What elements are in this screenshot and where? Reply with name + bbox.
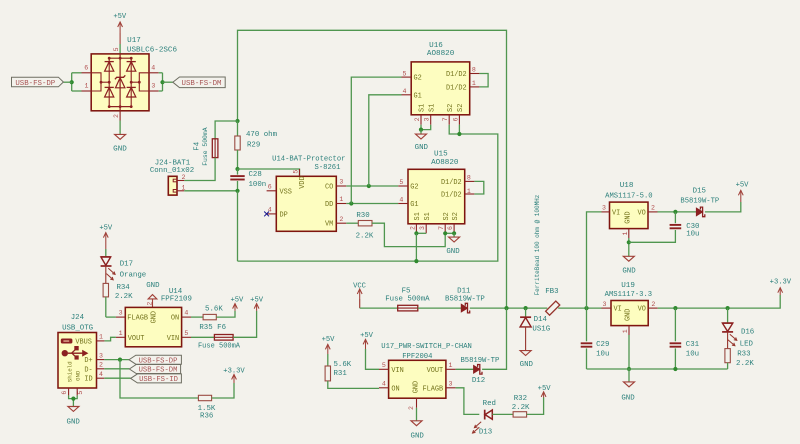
- svg-text:G2: G2: [414, 75, 422, 83]
- svg-text:USBLC6-2SC6: USBLC6-2SC6: [127, 46, 178, 54]
- svg-text:Red: Red: [483, 400, 496, 408]
- power +5V (D17): [99, 224, 113, 249]
- D12 reference: [472, 377, 485, 385]
- wire R30 to U15 S2: [372, 223, 445, 246]
- pin 3 number U18: [602, 205, 606, 212]
- D15 reference: [693, 187, 706, 195]
- svg-text:GND: GND: [75, 370, 82, 381]
- fuse F5: [398, 305, 418, 311]
- svg-text:3: 3: [339, 179, 343, 186]
- svg-text:VSS: VSS: [280, 188, 292, 196]
- svg-text:8: 8: [467, 175, 471, 182]
- svg-text:R34: R34: [116, 284, 130, 292]
- wire VSS node down to S1 rail: [237, 191, 239, 261]
- F4 reference: [193, 141, 201, 150]
- global label USB-FS-DP (usb): [129, 355, 181, 365]
- pin 6 number J24: [61, 391, 68, 395]
- wire U15 S1 bracket: [416, 232, 426, 234]
- svg-text:VM: VM: [325, 221, 333, 229]
- svg-text:VOUT: VOUT: [427, 367, 444, 375]
- svg-text:GND: GND: [446, 248, 460, 256]
- pin 2 number U17: [113, 114, 120, 118]
- J24-BAT1 reference: [155, 159, 191, 167]
- wire D12 to VCC node: [482, 308, 506, 369]
- R30 value 2.2K: [356, 232, 374, 240]
- C28 reference: [249, 171, 262, 179]
- pin 4 number U14: [268, 207, 272, 214]
- pin 7 number U15: [438, 226, 445, 230]
- svg-text:FB3: FB3: [545, 288, 558, 296]
- svg-text:GND: GND: [621, 395, 635, 403]
- wire U17 right bracket: [159, 73, 163, 91]
- FPF2109 pin name VOUT: [128, 335, 145, 343]
- svg-text:D1/D2: D1/D2: [441, 179, 462, 187]
- svg-text:10u: 10u: [596, 351, 609, 359]
- svg-text:3: 3: [449, 380, 453, 387]
- svg-text:VO: VO: [638, 209, 646, 217]
- resistor R32: [513, 412, 527, 417]
- svg-text:U17: U17: [127, 37, 141, 45]
- svg-text:1: 1: [472, 80, 476, 87]
- svg-text:CO: CO: [325, 184, 333, 192]
- svg-text:D-: D-: [84, 366, 92, 374]
- svg-text:S-8261: S-8261: [315, 164, 341, 172]
- FPF2109 pin name FLAGB: [127, 315, 148, 323]
- junction U18 GND: [627, 240, 631, 244]
- svg-text:100n: 100n: [249, 181, 267, 189]
- ground U18: [622, 256, 636, 275]
- svg-text:5.6K: 5.6K: [334, 361, 352, 369]
- svg-text:GND: GND: [411, 433, 425, 439]
- svg-text:GND: GND: [520, 361, 534, 369]
- power +5V (R32): [538, 385, 552, 397]
- U17sw pin name GND: [413, 381, 421, 393]
- svg-text:2.2K: 2.2K: [512, 404, 530, 412]
- resistor R33: [725, 349, 730, 369]
- pin 3 number U17: [151, 83, 155, 90]
- svg-text:VO: VO: [638, 306, 646, 314]
- junction S1 rail: [414, 259, 418, 263]
- pin 1 number J24: [99, 334, 103, 341]
- svg-text:1: 1: [339, 196, 343, 203]
- svg-text:S2: S2: [457, 104, 465, 112]
- wire U17 to label USB-FS-DM: [163, 81, 173, 83]
- U17sw pin name FLAGB: [423, 385, 444, 393]
- wire U16 G1 vertical: [369, 95, 402, 186]
- svg-text:R35: R35: [199, 324, 212, 332]
- svg-text:3: 3: [603, 301, 607, 308]
- J24 pin name D-: [84, 366, 92, 374]
- U14 FPF2109 reference: [169, 288, 183, 296]
- svg-text:4: 4: [382, 380, 386, 387]
- wire R35 to +5V: [216, 311, 235, 317]
- svg-text:Fuse 500mA: Fuse 500mA: [198, 343, 241, 351]
- U16 pin name G2: [414, 75, 422, 83]
- U17sw pin name ON: [391, 385, 399, 393]
- U17sw pin name VIN: [391, 367, 403, 375]
- junction CO / U16 G1: [367, 184, 371, 188]
- svg-text:FPF2004: FPF2004: [402, 353, 432, 361]
- U19 pin name GND: [625, 309, 633, 321]
- svg-text:5.6K: 5.6K: [205, 305, 223, 313]
- svg-text:GND: GND: [415, 144, 429, 152]
- svg-text:+5V: +5V: [99, 224, 113, 232]
- pin 8 number U16: [472, 67, 476, 74]
- svg-text:VI: VI: [612, 209, 620, 217]
- wire F6 to +5V: [233, 311, 257, 338]
- U19 reference: [621, 282, 635, 290]
- U15 pin name S2 b: [452, 212, 460, 220]
- J24 USB value USB_OTG: [62, 325, 93, 333]
- U17_PWR-SWITCH_P-CHAN reference: [381, 343, 472, 351]
- junction D+ / R36: [118, 358, 122, 362]
- svg-text:ON: ON: [391, 385, 399, 393]
- svg-text:5: 5: [399, 179, 403, 186]
- power +5V (R35): [230, 297, 244, 311]
- svg-text:1: 1: [85, 83, 89, 90]
- pin 2 number U18: [651, 205, 655, 212]
- power +5V (U17 VIN): [360, 332, 374, 349]
- pin 2 number U19: [651, 301, 655, 308]
- svg-text:10u: 10u: [686, 351, 699, 359]
- J24 pin name D+: [84, 357, 92, 365]
- FPF2109 pin name ON: [171, 315, 179, 323]
- pin 3 number U17sw: [449, 380, 453, 387]
- svg-text:Shield: Shield: [67, 361, 74, 382]
- wire ON to R35: [191, 316, 203, 318]
- U14 pin name DD: [325, 201, 333, 209]
- wire D- to label: [104, 368, 129, 370]
- svg-text:D1/D2: D1/D2: [441, 192, 462, 200]
- wire J24-BAT1 pin1 to VSS node: [184, 190, 237, 192]
- resistor R34: [103, 283, 108, 317]
- svg-text:6: 6: [452, 117, 459, 121]
- pin 5 number U17: [113, 47, 120, 51]
- svg-text:6: 6: [447, 226, 454, 230]
- svg-text:FLAGB: FLAGB: [423, 385, 444, 393]
- pin 4 number FPF2109: [184, 310, 188, 317]
- svg-text:USB_OTG: USB_OTG: [62, 325, 93, 333]
- svg-text:2: 2: [113, 114, 120, 118]
- U16 pin name S2 b: [457, 104, 465, 112]
- svg-text:FPF2109: FPF2109: [161, 296, 192, 304]
- svg-text:+5V: +5V: [230, 297, 244, 305]
- svg-text:+5V: +5V: [538, 385, 552, 393]
- svg-text:ID: ID: [84, 376, 92, 384]
- svg-text:2: 2: [182, 174, 186, 181]
- C28 value 100n: [249, 181, 267, 189]
- resistor R31: [325, 354, 379, 388]
- svg-text:D15: D15: [693, 187, 706, 195]
- FPF2004 value: [402, 353, 432, 361]
- wire FLAGB to D13: [456, 388, 480, 415]
- svg-text:4: 4: [184, 310, 188, 317]
- junction U15 S2 pin6: [452, 231, 456, 235]
- pin 1 number U17: [85, 83, 89, 90]
- U15 pin name S1 a: [414, 212, 422, 220]
- R33 reference: [737, 351, 750, 359]
- R32 value 2.2K: [512, 404, 530, 412]
- junction C30 top: [673, 210, 677, 214]
- R34 value 2.2K: [115, 293, 133, 301]
- svg-text:R30: R30: [356, 212, 369, 220]
- svg-text:2.2K: 2.2K: [115, 293, 133, 301]
- pin 2 number J24-BAT1: [182, 174, 186, 181]
- U18 pin name VO: [638, 209, 646, 217]
- wire +5V to VIN: [366, 349, 380, 369]
- svg-text:10u: 10u: [686, 231, 699, 239]
- wire U16 S1 bracket: [421, 125, 431, 130]
- ferrite bead FB3: [546, 301, 560, 315]
- resistor R35: [203, 314, 216, 319]
- capacitor C31: [670, 308, 682, 369]
- R35 reference: [199, 324, 212, 332]
- pin 5 number U14: [292, 170, 299, 174]
- power +3.3V (right): [770, 279, 792, 295]
- svg-text:2: 2: [408, 406, 415, 410]
- svg-text:R33: R33: [737, 351, 750, 359]
- svg-text:470 ohm: 470 ohm: [246, 131, 278, 139]
- svg-text:S2: S2: [452, 212, 460, 220]
- svg-text:VDD: VDD: [299, 176, 307, 188]
- global label USB-FS-DM (right): [173, 77, 225, 88]
- J24-BAT1 value Conn_01x02: [150, 167, 194, 175]
- wire U14 DD to U15 G1: [346, 203, 398, 205]
- svg-text:2: 2: [99, 362, 103, 369]
- pin 7 number U16: [442, 117, 449, 121]
- wire U14 CO to U15 G2: [346, 185, 398, 187]
- capacitor C30: [629, 212, 681, 242]
- junction VDD node: [235, 167, 239, 171]
- power +5V (F6): [250, 297, 264, 311]
- wire R34 to FLAGB: [106, 316, 116, 318]
- J24 pin name ID: [84, 376, 92, 384]
- pin 2 number J24: [99, 362, 103, 369]
- ground J24: [67, 407, 81, 427]
- junction U15 S2 pin7: [443, 231, 447, 235]
- svg-text:3: 3: [424, 117, 431, 121]
- svg-text:6: 6: [268, 183, 272, 190]
- op-amp U17 USBLC6-2SC6 TVS array: [82, 54, 159, 121]
- junction D16 top: [726, 306, 730, 310]
- ground U17sw: [411, 408, 425, 441]
- svg-text:R29: R29: [247, 142, 260, 150]
- wire U16 G2 vertical: [351, 77, 401, 203]
- R30 reference: [356, 212, 369, 220]
- pin 1 number U17sw: [449, 362, 453, 369]
- wire bottom S1 rail: [238, 134, 498, 261]
- pin 3 number U15: [419, 226, 426, 230]
- U19 pin name VO: [638, 306, 646, 314]
- wire +5V to U17 pin 5: [119, 44, 121, 53]
- svg-text:AMS1117-5.0: AMS1117-5.0: [605, 193, 652, 201]
- svg-text:D14: D14: [534, 316, 548, 324]
- U16 reference: [429, 42, 443, 50]
- svg-text:DP: DP: [280, 211, 288, 219]
- svg-text:G2: G2: [410, 184, 418, 192]
- junction VSS node: [235, 189, 239, 193]
- svg-text:+5V: +5V: [113, 13, 127, 21]
- wire D15 to +5V: [705, 202, 741, 212]
- global label USB-FS-ID (usb): [131, 374, 182, 384]
- svg-text:D11: D11: [457, 288, 471, 296]
- junction C31 top: [673, 306, 677, 310]
- svg-text:D+: D+: [84, 357, 92, 365]
- D17 value Orange: [120, 271, 147, 279]
- svg-text:GND: GND: [113, 145, 127, 153]
- F4 value Fuse 500mA: [202, 127, 209, 166]
- global label USB-FS-DM (usb): [129, 365, 180, 375]
- pin 3 number J24: [99, 352, 103, 359]
- svg-text:AO8820: AO8820: [431, 159, 459, 167]
- pin 2 number U14: [339, 216, 343, 223]
- ground above FPF2109 (inverted): [146, 282, 160, 307]
- svg-text:+5V: +5V: [322, 336, 336, 344]
- junction battery plus node: [235, 119, 239, 123]
- svg-text:U17_PWR-SWITCH_P-CHAN: U17_PWR-SWITCH_P-CHAN: [381, 343, 472, 351]
- C29 reference: [596, 341, 609, 349]
- R29 value 470 ohm: [246, 131, 278, 139]
- global label USB-FS-DP (left): [12, 77, 64, 88]
- svg-text:B5819W-TP: B5819W-TP: [445, 296, 485, 304]
- svg-text:4: 4: [151, 64, 155, 71]
- D14 reference: [534, 316, 548, 324]
- D13 value Red: [483, 400, 496, 408]
- wire U18 VI vertical: [587, 212, 602, 308]
- svg-text:VOUT: VOUT: [128, 335, 145, 343]
- pin 4 number J24: [99, 371, 103, 378]
- J24 pin name VBUS: [75, 339, 92, 347]
- capacitor C29: [581, 308, 593, 369]
- U16 value AO8820: [427, 50, 455, 58]
- svg-text:DD: DD: [325, 201, 333, 209]
- U16 pin name D1/D2 lower: [446, 84, 467, 92]
- svg-text:D16: D16: [741, 329, 754, 337]
- svg-text:+3.3V: +3.3V: [770, 279, 792, 287]
- F6 value Fuse 500mA: [198, 343, 241, 351]
- U18 pin name GND: [624, 211, 632, 223]
- U15 pin name G1: [410, 201, 418, 209]
- wire U18 GND: [628, 238, 630, 256]
- pin 6 number U17: [84, 64, 88, 71]
- junction left of U17: [70, 80, 74, 84]
- pin 2 number U16: [414, 117, 421, 121]
- svg-text:2.2K: 2.2K: [356, 232, 374, 240]
- wire U15 S1 to rail: [415, 233, 417, 261]
- wire ID to label: [104, 377, 130, 379]
- svg-text:C31: C31: [686, 341, 700, 349]
- svg-text:1: 1: [622, 231, 629, 235]
- pin 1 number U18: [622, 231, 629, 235]
- svg-text:8: 8: [472, 67, 476, 74]
- power +5V (D15): [736, 182, 750, 202]
- FPF2109 pin name GND: [151, 311, 159, 323]
- U16 pin name S1 b: [429, 104, 437, 112]
- svg-text:GND: GND: [624, 211, 632, 223]
- pin 6 number U16: [452, 117, 459, 121]
- wire U15 D1/D2 loop: [474, 181, 483, 194]
- svg-text:5: 5: [113, 47, 120, 51]
- op-amp U14 S-8261 battery protector: [267, 169, 347, 231]
- R33 value 2.2K: [736, 360, 754, 368]
- U16 pin name S2 a: [447, 104, 455, 112]
- U15 pin name S2 a: [443, 212, 451, 220]
- U14 pin name VDD: [299, 176, 307, 188]
- pin 3 number U19: [603, 301, 607, 308]
- power +5V (R31): [322, 336, 336, 354]
- pin 1 number U19: [622, 329, 629, 333]
- svg-text:D1/D2: D1/D2: [446, 84, 467, 92]
- svg-text:1: 1: [119, 330, 123, 337]
- svg-text:3: 3: [419, 226, 426, 230]
- wire label to U17 left: [63, 81, 71, 83]
- R31 reference: [334, 370, 348, 378]
- R35 value 5.6K: [205, 305, 223, 313]
- svg-text:GND: GND: [413, 381, 421, 393]
- svg-text:ON: ON: [171, 315, 179, 323]
- svg-text:J24: J24: [71, 314, 85, 322]
- svg-text:D12: D12: [472, 377, 485, 385]
- svg-text:G1: G1: [414, 92, 422, 100]
- U16 pin name G1: [414, 92, 422, 100]
- wire rail to U19 VI stub: [602, 307, 612, 309]
- pin 6 number U15: [447, 226, 454, 230]
- LED D16: [722, 308, 737, 349]
- svg-text:AMS1117-3.3: AMS1117-3.3: [605, 291, 652, 299]
- svg-text:3: 3: [151, 83, 155, 90]
- wire U19 GND to rail: [628, 335, 630, 369]
- wire fuse F4 bottom to J24-BAT1 pin2: [184, 158, 215, 181]
- svg-text:2: 2: [409, 226, 416, 230]
- svg-text:5: 5: [292, 170, 299, 174]
- junction D14 node: [524, 306, 528, 310]
- wire FB3 to U19 VI: [558, 307, 601, 309]
- fuse F4: [212, 139, 218, 158]
- ground U15 S2: [446, 233, 460, 256]
- junction right of U17: [160, 80, 164, 84]
- svg-text:5: 5: [184, 330, 188, 337]
- C30 reference: [686, 223, 699, 231]
- svg-text:U15: U15: [434, 150, 448, 158]
- wire R32 to +5V: [527, 398, 544, 415]
- svg-text:5: 5: [77, 391, 84, 395]
- svg-text:U14-BAT-Protector: U14-BAT-Protector: [272, 156, 345, 164]
- pin 5 number U16: [403, 70, 407, 77]
- U18 pin name VI: [612, 209, 620, 217]
- svg-text:S2: S2: [443, 212, 451, 220]
- power +3.3V (R36): [223, 367, 245, 383]
- U15 pin name S1 b: [424, 212, 432, 220]
- svg-text:USB-FS-DP: USB-FS-DP: [15, 80, 55, 88]
- pin 3 number FPF2109: [119, 310, 123, 317]
- ground D14: [520, 351, 534, 370]
- J24 pin name GND: [75, 370, 82, 381]
- svg-text:C28: C28: [249, 171, 262, 179]
- svg-text:S1: S1: [424, 212, 432, 220]
- svg-text:D13: D13: [479, 429, 492, 437]
- svg-text:2: 2: [414, 117, 421, 121]
- R36 value 1.5K: [198, 405, 216, 413]
- svg-text:2: 2: [339, 216, 343, 223]
- svg-text:S2: S2: [447, 104, 455, 112]
- svg-text:VIN: VIN: [391, 367, 403, 375]
- wire J24 shield gnd bracket: [69, 395, 78, 406]
- junction DD / U16 G2: [349, 201, 353, 205]
- wire D+ to R36: [120, 360, 198, 398]
- pin 3 number U16: [424, 117, 431, 121]
- R36 reference: [200, 412, 213, 420]
- svg-text:USB-FS-DM: USB-FS-DM: [182, 80, 222, 88]
